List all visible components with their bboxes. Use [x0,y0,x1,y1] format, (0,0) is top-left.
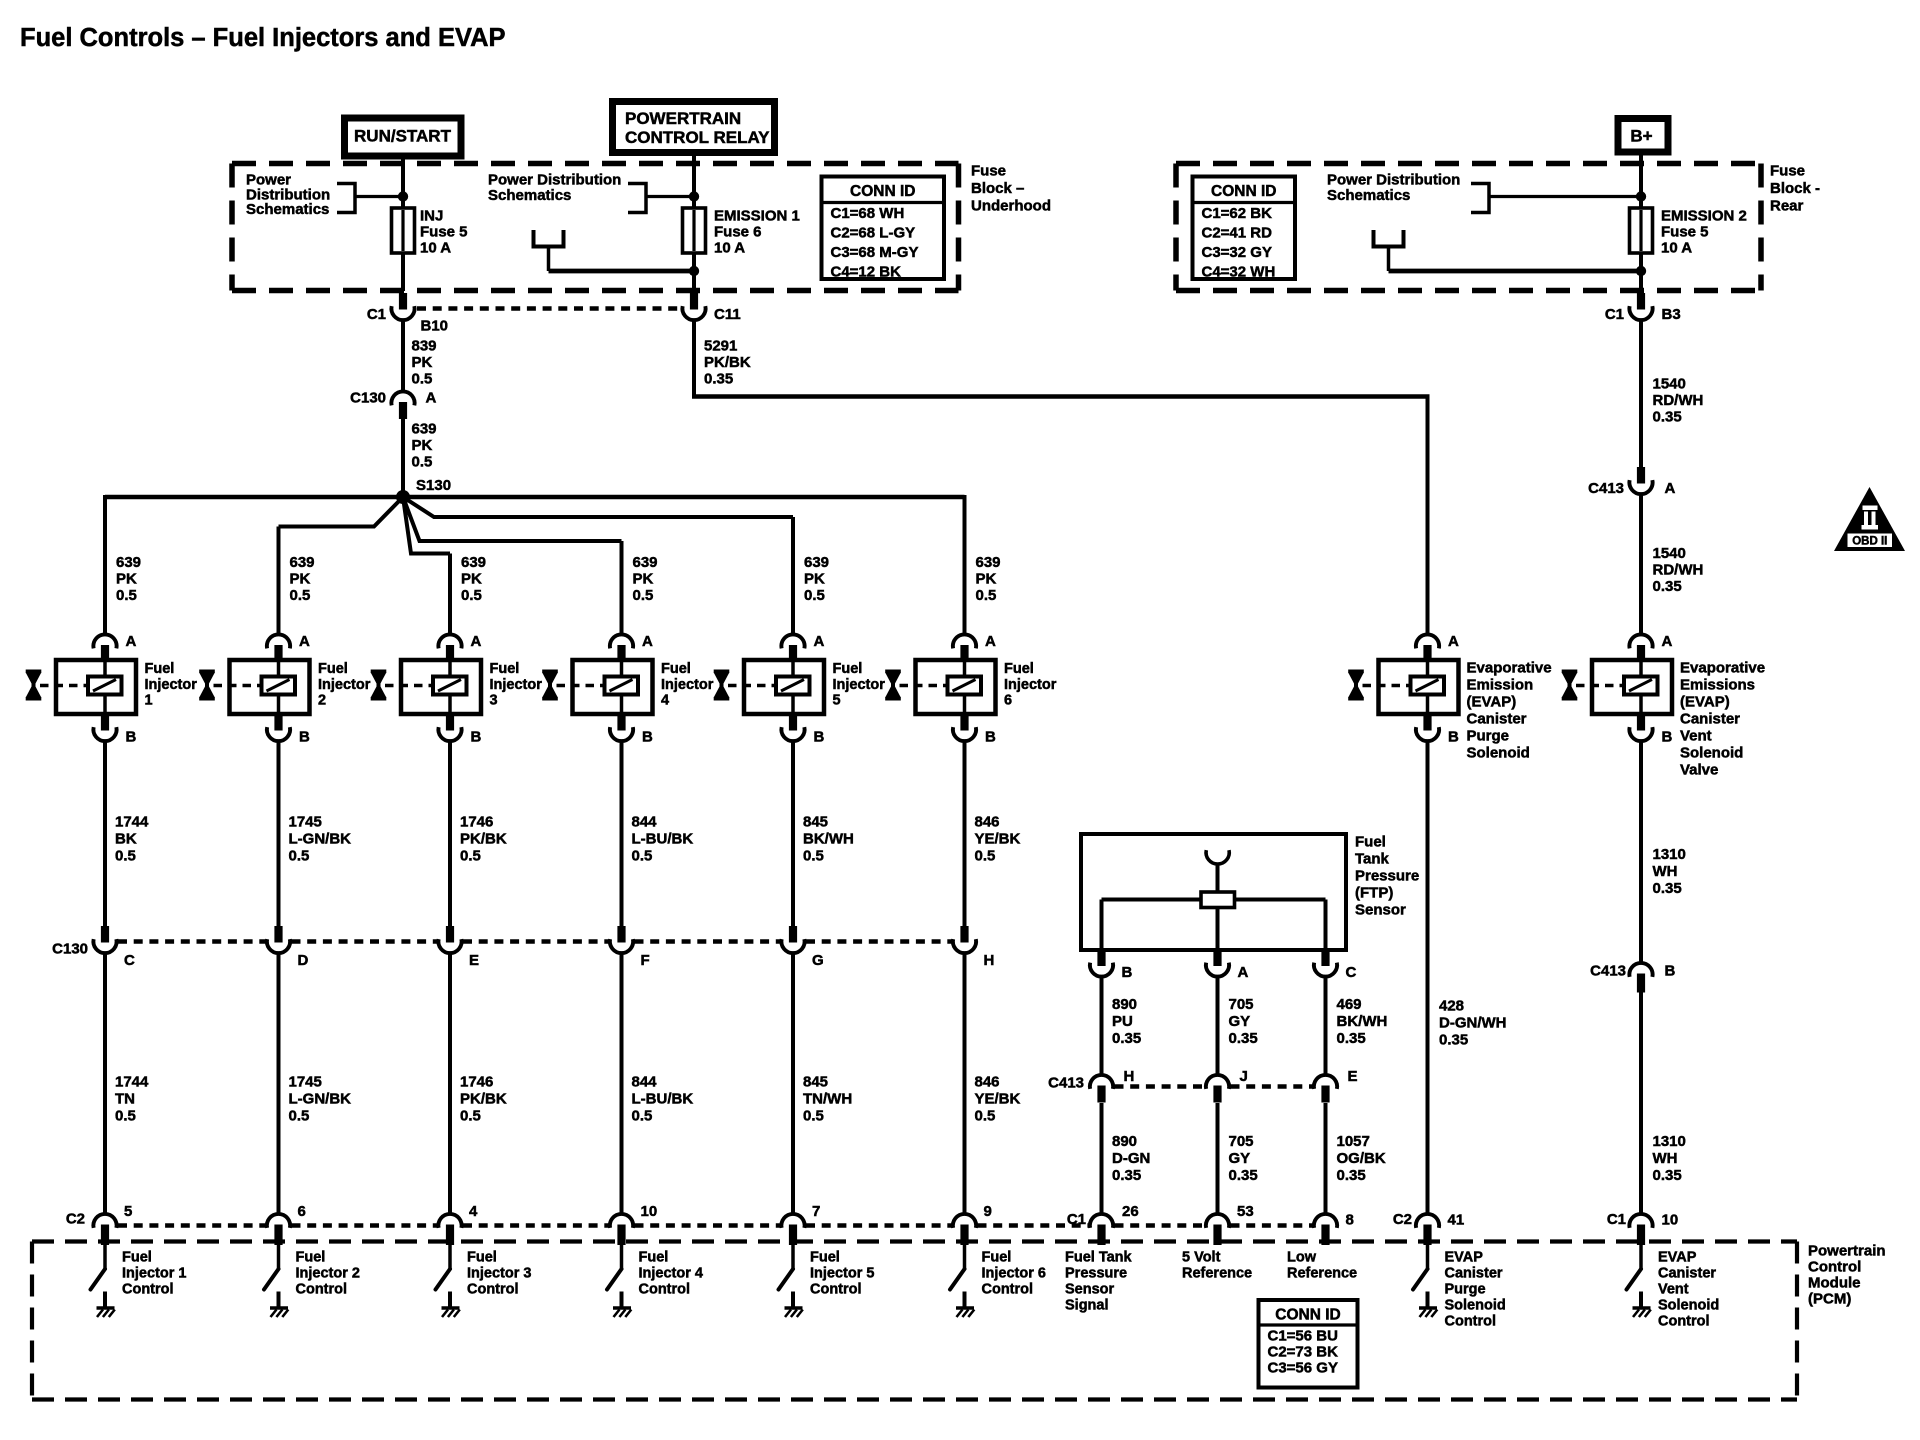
svg-text:(EVAP): (EVAP) [1680,694,1730,711]
svg-text:C130: C130 [350,390,386,407]
svg-text:Control: Control [810,1282,862,1298]
svg-text:RUN/START: RUN/START [354,127,452,146]
svg-text:RD/WH: RD/WH [1653,392,1704,409]
svg-text:Canister: Canister [1680,711,1740,728]
svg-text:B: B [985,729,996,746]
svg-text:C2=41 RD: C2=41 RD [1202,225,1273,242]
svg-text:0.5: 0.5 [116,587,137,604]
svg-text:Fuse 5: Fuse 5 [420,224,468,241]
svg-text:0.5: 0.5 [632,848,653,865]
svg-text:639: 639 [116,554,141,571]
svg-text:Solenoid: Solenoid [1467,745,1530,762]
svg-text:Fuel: Fuel [833,661,863,677]
svg-text:B: B [814,729,825,746]
svg-text:A: A [985,633,996,650]
svg-text:D-GN: D-GN [1112,1150,1150,1167]
svg-text:Block -: Block - [1770,180,1820,197]
svg-text:Canister: Canister [1658,1266,1716,1282]
svg-text:H: H [1124,1068,1135,1085]
svg-text:CONN ID: CONN ID [1211,183,1276,200]
svg-text:Injector: Injector [490,677,543,693]
svg-text:C2: C2 [1393,1211,1412,1228]
svg-text:C4=32 WH: C4=32 WH [1202,264,1276,281]
svg-text:Fuel: Fuel [810,1250,840,1266]
svg-text:C2=73 BK: C2=73 BK [1268,1344,1339,1361]
svg-text:B3: B3 [1662,306,1681,323]
svg-text:PK/BK: PK/BK [460,831,507,848]
svg-text:Fuse: Fuse [971,163,1006,180]
svg-text:0.35: 0.35 [1229,1167,1258,1184]
svg-text:C4=12 BK: C4=12 BK [831,264,902,281]
svg-text:B: B [1662,729,1673,746]
svg-text:Rear: Rear [1770,198,1804,215]
svg-text:C2=68 L-GY: C2=68 L-GY [831,225,916,242]
svg-text:0.5: 0.5 [289,848,310,865]
svg-text:428: 428 [1439,998,1464,1015]
svg-text:Injector 4: Injector 4 [639,1266,703,1282]
svg-text:0.5: 0.5 [976,587,997,604]
svg-text:B: B [642,729,653,746]
svg-text:S130: S130 [416,477,451,494]
svg-text:POWERTRAIN: POWERTRAIN [625,109,741,128]
svg-text:Control: Control [1808,1259,1861,1276]
svg-text:Power Distribution: Power Distribution [488,172,621,189]
svg-text:0.35: 0.35 [1229,1030,1258,1047]
svg-text:PU: PU [1112,1013,1133,1030]
svg-text:839: 839 [412,338,437,355]
svg-text:1745: 1745 [289,814,322,831]
svg-text:TN/WH: TN/WH [803,1091,852,1108]
svg-text:705: 705 [1229,996,1254,1013]
svg-text:GY: GY [1229,1150,1251,1167]
svg-text:Reference: Reference [1287,1266,1357,1282]
svg-text:Injector: Injector [661,677,714,693]
svg-text:Powertrain: Powertrain [1808,1243,1886,1260]
svg-text:L-BU/BK: L-BU/BK [632,831,694,848]
svg-text:Evaporative: Evaporative [1467,660,1552,677]
svg-text:D: D [298,952,309,969]
svg-text:1310: 1310 [1653,846,1686,863]
svg-text:PK/BK: PK/BK [460,1091,507,1108]
svg-text:A: A [126,633,137,650]
svg-text:Schematics: Schematics [488,187,571,204]
svg-text:B: B [1448,729,1459,746]
svg-text:PK: PK [290,571,311,588]
svg-text:Control: Control [639,1282,691,1298]
svg-text:OBD II: OBD II [1852,536,1887,548]
svg-text:RD/WH: RD/WH [1653,562,1704,579]
svg-text:E: E [469,952,479,969]
svg-text:0.5: 0.5 [290,587,311,604]
svg-text:639: 639 [633,554,658,571]
svg-text:0.35: 0.35 [1337,1030,1366,1047]
svg-text:C3=68 M-GY: C3=68 M-GY [831,244,919,261]
svg-text:1746: 1746 [460,814,493,831]
svg-text:B: B [471,729,482,746]
svg-text:0.35: 0.35 [1653,1167,1682,1184]
svg-text:CONTROL RELAY: CONTROL RELAY [625,128,770,147]
svg-text:C1=62 BK: C1=62 BK [1202,205,1273,222]
svg-text:0.5: 0.5 [115,1108,136,1125]
svg-text:Fuel: Fuel [1004,661,1034,677]
svg-text:L-GN/BK: L-GN/BK [289,831,352,848]
svg-text:Pressure: Pressure [1355,868,1419,885]
svg-text:Fuel: Fuel [490,661,520,677]
svg-text:EMISSION 2: EMISSION 2 [1661,208,1747,225]
svg-text:845: 845 [803,1074,828,1091]
svg-text:0.5: 0.5 [804,587,825,604]
svg-text:5291: 5291 [704,338,737,355]
svg-text:1745: 1745 [289,1074,322,1091]
svg-text:C413: C413 [1048,1075,1084,1092]
svg-text:3: 3 [490,693,498,709]
svg-text:Fuel: Fuel [1355,834,1386,851]
svg-text:639: 639 [461,554,486,571]
svg-text:CONN ID: CONN ID [850,183,915,200]
svg-text:6: 6 [298,1203,306,1220]
svg-text:0.35: 0.35 [1112,1167,1141,1184]
svg-text:Injector 2: Injector 2 [296,1266,360,1282]
svg-text:0.35: 0.35 [704,371,733,388]
svg-text:(FTP): (FTP) [1355,885,1393,902]
svg-text:Injector 5: Injector 5 [810,1266,874,1282]
svg-text:BK/WH: BK/WH [1337,1013,1388,1030]
svg-text:B: B [1122,964,1133,981]
svg-text:Pressure: Pressure [1065,1266,1127,1282]
svg-text:0.35: 0.35 [1653,578,1682,595]
svg-text:Valve: Valve [1680,762,1718,779]
svg-text:Module: Module [1808,1275,1861,1292]
svg-text:Power Distribution: Power Distribution [1327,172,1460,189]
svg-text:845: 845 [803,814,828,831]
svg-text:C413: C413 [1588,480,1624,497]
svg-text:OG/BK: OG/BK [1337,1150,1386,1167]
svg-text:Emissions: Emissions [1680,677,1755,694]
svg-text:8: 8 [1346,1212,1354,1229]
svg-text:YE/BK: YE/BK [975,831,1021,848]
svg-text:0.5: 0.5 [803,1108,824,1125]
svg-text:C130: C130 [52,941,88,958]
svg-text:WH: WH [1653,863,1678,880]
svg-text:EVAP: EVAP [1658,1250,1697,1266]
svg-text:A: A [1238,964,1249,981]
svg-text:Block –: Block – [971,180,1024,197]
svg-text:Sensor: Sensor [1355,902,1406,919]
svg-text:Sensor: Sensor [1065,1282,1115,1298]
svg-text:26: 26 [1122,1203,1139,1220]
svg-text:844: 844 [632,814,658,831]
svg-text:Vent: Vent [1680,728,1712,745]
svg-text:Fuel Tank: Fuel Tank [1065,1250,1133,1266]
svg-text:BK: BK [115,831,137,848]
svg-text:E: E [1348,1068,1358,1085]
svg-text:(EVAP): (EVAP) [1467,694,1517,711]
svg-text:Vent: Vent [1658,1282,1689,1298]
svg-text:Control: Control [467,1282,519,1298]
svg-text:C1=68 WH: C1=68 WH [831,205,905,222]
svg-text:PK: PK [976,571,997,588]
svg-text:1746: 1746 [460,1074,493,1091]
svg-text:PK: PK [461,571,482,588]
svg-text:B: B [299,729,310,746]
svg-text:Injector 3: Injector 3 [467,1266,531,1282]
svg-text:C2: C2 [66,1211,85,1228]
svg-text:Underhood: Underhood [971,198,1051,215]
svg-text:Low: Low [1287,1250,1317,1266]
svg-text:A: A [1448,633,1459,650]
svg-text:Control: Control [296,1282,348,1298]
svg-text:10 A: 10 A [1661,240,1692,257]
svg-text:C3=56 GY: C3=56 GY [1268,1360,1338,1377]
svg-text:Fuel: Fuel [639,1250,669,1266]
svg-text:0.5: 0.5 [412,454,433,471]
svg-text:Signal: Signal [1065,1298,1109,1314]
svg-text:Solenoid: Solenoid [1680,745,1743,762]
svg-text:C1: C1 [367,306,386,323]
svg-text:Tank: Tank [1355,851,1390,868]
svg-text:B: B [126,729,137,746]
svg-text:C: C [1346,964,1357,981]
svg-text:41: 41 [1448,1212,1465,1229]
svg-text:Injector: Injector [1004,677,1057,693]
svg-text:0.35: 0.35 [1112,1030,1141,1047]
svg-text:Fuel: Fuel [982,1250,1012,1266]
svg-text:GY: GY [1229,1013,1251,1030]
svg-text:Injector: Injector [833,677,886,693]
svg-text:0.5: 0.5 [412,371,433,388]
svg-text:YE/BK: YE/BK [975,1091,1021,1108]
svg-text:7: 7 [812,1203,820,1220]
svg-text:0.35: 0.35 [1439,1032,1468,1049]
svg-text:C11: C11 [714,306,741,323]
svg-text:705: 705 [1229,1133,1254,1150]
svg-text:0.5: 0.5 [975,1108,996,1125]
svg-text:PK: PK [633,571,654,588]
svg-text:1540: 1540 [1653,545,1686,562]
svg-text:Fuel: Fuel [145,661,175,677]
svg-text:WH: WH [1653,1150,1678,1167]
svg-text:Injector 1: Injector 1 [122,1266,186,1282]
svg-text:Solenoid: Solenoid [1445,1298,1506,1314]
svg-text:G: G [812,952,824,969]
svg-text:PK/BK: PK/BK [704,354,751,371]
svg-text:846: 846 [975,1074,1000,1091]
svg-text:L-BU/BK: L-BU/BK [632,1091,694,1108]
svg-text:10: 10 [1662,1212,1679,1229]
svg-text:639: 639 [976,554,1001,571]
svg-text:0.5: 0.5 [803,848,824,865]
svg-text:846: 846 [975,814,1000,831]
svg-text:C1: C1 [1607,1211,1626,1228]
svg-text:890: 890 [1112,1133,1137,1150]
svg-text:C3=32 GY: C3=32 GY [1202,244,1272,261]
svg-text:Reference: Reference [1182,1266,1252,1282]
svg-text:Canister: Canister [1445,1266,1503,1282]
svg-text:Canister: Canister [1467,711,1527,728]
svg-text:4: 4 [469,1203,478,1220]
svg-text:J: J [1240,1068,1248,1085]
svg-text:9: 9 [984,1203,992,1220]
svg-text:Fuse 6: Fuse 6 [714,224,762,241]
svg-text:Control: Control [982,1282,1034,1298]
svg-text:5: 5 [833,693,841,709]
svg-text:Fuel: Fuel [661,661,691,677]
svg-text:0.5: 0.5 [975,848,996,865]
svg-text:Evaporative: Evaporative [1680,660,1765,677]
svg-text:Control: Control [1445,1314,1497,1330]
svg-text:EVAP: EVAP [1445,1250,1484,1266]
svg-text:EMISSION 1: EMISSION 1 [714,208,800,225]
svg-text:Fuel Controls – Fuel Injectors: Fuel Controls – Fuel Injectors and EVAP [20,24,506,52]
svg-text:Purge: Purge [1445,1282,1486,1298]
svg-text:0.35: 0.35 [1653,880,1682,897]
svg-text:Injector: Injector [145,677,198,693]
svg-text:6: 6 [1004,693,1012,709]
svg-text:53: 53 [1237,1203,1254,1220]
svg-text:(PCM): (PCM) [1808,1291,1851,1308]
svg-text:Emission: Emission [1467,677,1534,694]
svg-text:639: 639 [290,554,315,571]
svg-text:TN: TN [115,1091,135,1108]
svg-text:Control: Control [1658,1314,1710,1330]
svg-text:1057: 1057 [1337,1133,1370,1150]
svg-text:0.5: 0.5 [632,1108,653,1125]
svg-text:0.5: 0.5 [460,1108,481,1125]
svg-text:2: 2 [318,693,326,709]
svg-text:A: A [642,633,653,650]
svg-text:Control: Control [122,1282,174,1298]
svg-text:Fuel: Fuel [318,661,348,677]
svg-text:PK: PK [116,571,137,588]
svg-text:BK/WH: BK/WH [803,831,854,848]
svg-text:A: A [814,633,825,650]
svg-text:A: A [1665,480,1676,497]
svg-text:PK: PK [412,437,433,454]
svg-text:A: A [299,633,310,650]
svg-text:B+: B+ [1630,127,1652,146]
svg-text:1310: 1310 [1653,1133,1686,1150]
svg-text:B: B [1665,963,1676,980]
svg-text:D-GN/WH: D-GN/WH [1439,1015,1507,1032]
svg-text:Injector 6: Injector 6 [982,1266,1046,1282]
svg-text:844: 844 [632,1074,658,1091]
svg-text:INJ: INJ [420,208,443,225]
svg-text:Solenoid: Solenoid [1658,1298,1719,1314]
svg-text:Fuel: Fuel [296,1250,326,1266]
svg-text:10: 10 [641,1203,658,1220]
svg-text:0.5: 0.5 [115,848,136,865]
svg-text:Schematics: Schematics [1327,187,1410,204]
svg-text:C413: C413 [1590,963,1626,980]
svg-text:1: 1 [145,693,153,709]
svg-text:PK: PK [412,354,433,371]
svg-text:C1=56 BU: C1=56 BU [1268,1328,1338,1345]
svg-text:0.5: 0.5 [289,1108,310,1125]
svg-text:Purge: Purge [1467,728,1510,745]
svg-text:639: 639 [412,421,437,438]
svg-text:0.35: 0.35 [1653,409,1682,426]
svg-text:469: 469 [1337,996,1362,1013]
svg-text:10 A: 10 A [714,240,745,257]
svg-text:A: A [1662,633,1673,650]
svg-text:F: F [641,952,650,969]
svg-text:Fuel: Fuel [467,1250,497,1266]
svg-text:C: C [124,952,135,969]
svg-text:H: H [984,952,995,969]
svg-text:639: 639 [804,554,829,571]
svg-text:CONN ID: CONN ID [1275,1307,1340,1324]
svg-text:0.5: 0.5 [460,848,481,865]
svg-text:B10: B10 [421,318,449,335]
svg-text:Fuse: Fuse [1770,163,1805,180]
svg-text:10 A: 10 A [420,240,451,257]
svg-text:C1: C1 [1605,306,1624,323]
svg-text:1540: 1540 [1653,376,1686,393]
svg-text:PK: PK [804,571,825,588]
svg-text:A: A [426,390,437,407]
svg-text:5 Volt: 5 Volt [1182,1250,1221,1266]
svg-text:C1: C1 [1067,1211,1086,1228]
svg-text:0.5: 0.5 [633,587,654,604]
svg-text:890: 890 [1112,996,1137,1013]
svg-text:Fuse 5: Fuse 5 [1661,224,1709,241]
svg-text:4: 4 [661,693,669,709]
svg-text:Injector: Injector [318,677,371,693]
svg-text:L-GN/BK: L-GN/BK [289,1091,352,1108]
svg-text:A: A [471,633,482,650]
svg-text:1744: 1744 [115,1074,149,1091]
svg-text:0.5: 0.5 [461,587,482,604]
svg-text:1744: 1744 [115,814,149,831]
svg-text:5: 5 [124,1203,132,1220]
svg-text:Fuel: Fuel [122,1250,152,1266]
svg-text:Schematics: Schematics [246,201,329,218]
svg-text:0.35: 0.35 [1337,1167,1366,1184]
